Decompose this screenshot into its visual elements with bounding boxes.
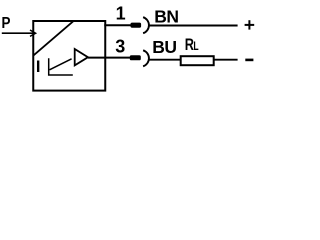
svg-text:I: I: [36, 58, 41, 76]
sensor box B1: [33, 21, 105, 91]
wire P input arrow: [2, 30, 36, 36]
characteristic curve graph: [49, 58, 73, 75]
connector plug pin 3: [130, 50, 149, 66]
svg-text:BU: BU: [152, 37, 176, 57]
minus terminal: [245, 59, 253, 62]
amplifier triangle: [75, 49, 88, 65]
svg-text:P: P: [2, 15, 11, 32]
plus terminal: [245, 20, 255, 29]
svg-text:BN: BN: [154, 7, 178, 27]
wire 1 from box to connector: [104, 24, 130, 26]
sensor flag diagonal: [34, 21, 74, 55]
wire BN: [149, 25, 238, 27]
RL label: [185, 35, 199, 54]
svg-text:1: 1: [116, 4, 126, 24]
resistor RL: [181, 56, 214, 65]
connector plug pin 1: [131, 17, 149, 33]
svg-text:3: 3: [115, 37, 125, 57]
wire BU: [149, 59, 238, 61]
wire 3 from amplifier output: [88, 57, 130, 59]
